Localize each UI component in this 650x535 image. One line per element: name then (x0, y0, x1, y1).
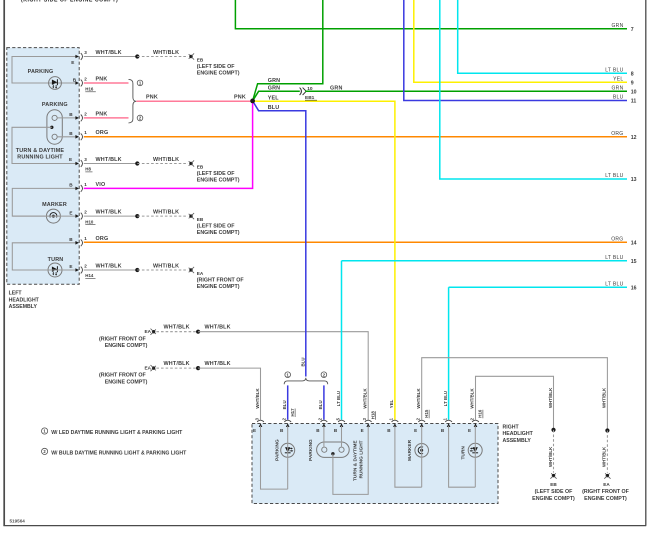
svg-text:TURN & DAYTIME: TURN & DAYTIME (353, 440, 359, 481)
svg-text:E: E (414, 428, 417, 433)
svg-text:EA: EA (144, 329, 151, 334)
svg-text:H15: H15 (424, 409, 429, 418)
svg-text:RUNNING LIGHT: RUNNING LIGHT (17, 155, 63, 161)
svg-text:EB: EB (197, 57, 204, 62)
svg-text:ENGINE COMPT): ENGINE COMPT) (532, 496, 575, 502)
svg-text:VIO: VIO (96, 182, 106, 188)
svg-text:E: E (69, 210, 72, 215)
svg-text:HEADLIGHT: HEADLIGHT (9, 297, 40, 303)
svg-text:EA: EA (603, 482, 610, 487)
svg-text:WHT/BLK: WHT/BLK (548, 446, 553, 467)
svg-text:W/ LED DAYTIME RUNNING LIGHT &: W/ LED DAYTIME RUNNING LIGHT & PARKING L… (51, 430, 183, 436)
svg-text:WHT/BLK: WHT/BLK (205, 325, 231, 331)
svg-text:GRN: GRN (330, 86, 343, 92)
svg-text:MARKER: MARKER (42, 202, 67, 208)
svg-text:H8: H8 (85, 167, 91, 172)
svg-text:H14: H14 (85, 273, 94, 278)
svg-text:WHT/BLK: WHT/BLK (205, 361, 231, 367)
svg-text:BLU: BLU (282, 400, 287, 409)
svg-text:WHT/BLK: WHT/BLK (153, 263, 179, 269)
svg-text:E: E (253, 428, 256, 433)
svg-text:YEL: YEL (613, 76, 623, 82)
svg-text:WHT/BLK: WHT/BLK (363, 388, 368, 409)
svg-text:BLU: BLU (318, 400, 323, 409)
svg-text:MARKER: MARKER (407, 439, 413, 461)
svg-text:WHT/BLK: WHT/BLK (416, 388, 421, 409)
svg-text:10: 10 (631, 90, 637, 96)
svg-text:WHT/BLK: WHT/BLK (255, 388, 260, 409)
svg-text:BLU: BLU (613, 95, 624, 101)
svg-text:(RIGHT FRONT OF: (RIGHT FRONT OF (197, 277, 245, 283)
svg-text:LT BLU: LT BLU (605, 255, 623, 261)
svg-text:LT BLU: LT BLU (605, 173, 623, 179)
svg-text:LT BLU: LT BLU (336, 391, 341, 406)
svg-text:3: 3 (84, 157, 87, 162)
svg-text:13: 13 (631, 177, 637, 183)
svg-text:WHT/BLK: WHT/BLK (96, 157, 122, 163)
svg-text:BLU: BLU (300, 357, 305, 366)
svg-text:PARKING: PARKING (308, 439, 314, 461)
svg-text:EA: EA (144, 366, 151, 371)
svg-text:(LEFT SIDE OF: (LEFT SIDE OF (197, 224, 235, 230)
svg-text:PARKING: PARKING (28, 69, 54, 75)
svg-text:TURN: TURN (461, 446, 467, 460)
svg-text:EB: EB (550, 482, 557, 487)
svg-text:GRN: GRN (268, 78, 281, 84)
svg-text:15: 15 (631, 259, 637, 265)
svg-text:E: E (69, 264, 72, 269)
svg-text:ORG: ORG (611, 131, 623, 137)
svg-text:BLU: BLU (268, 105, 280, 111)
svg-text:(LEFT SIDE OF: (LEFT SIDE OF (197, 64, 235, 70)
svg-text:PARKING: PARKING (275, 439, 281, 461)
svg-text:WHT/BLK: WHT/BLK (153, 210, 179, 216)
svg-text:ENGINE COMPT): ENGINE COMPT) (197, 70, 240, 76)
svg-text:2: 2 (84, 263, 87, 268)
svg-text:ENGINE COMPT): ENGINE COMPT) (197, 177, 240, 183)
svg-text:E: E (69, 157, 72, 162)
svg-text:WHT/BLK: WHT/BLK (153, 50, 179, 56)
svg-text:11: 11 (631, 99, 637, 105)
svg-text:LT BLU: LT BLU (605, 67, 623, 73)
svg-text:EA: EA (197, 271, 204, 276)
svg-text:14: 14 (631, 241, 637, 247)
svg-text:WHT/BLK: WHT/BLK (153, 157, 179, 163)
svg-text:9: 9 (631, 80, 634, 86)
svg-text:ORG: ORG (611, 236, 623, 242)
svg-text:RIGHT: RIGHT (503, 424, 520, 430)
svg-text:H10: H10 (85, 219, 94, 224)
svg-text:H16: H16 (85, 87, 94, 92)
svg-text:PNK: PNK (96, 76, 108, 82)
svg-text:ENGINE COMPT): ENGINE COMPT) (197, 230, 240, 236)
svg-text:LT BLU: LT BLU (605, 281, 623, 287)
svg-text:ENGINE COMPT): ENGINE COMPT) (105, 380, 148, 386)
svg-text:2: 2 (84, 210, 87, 215)
svg-text:EB: EB (197, 217, 204, 222)
svg-text:ORG: ORG (96, 130, 109, 136)
svg-text:TURN & DAYTIME: TURN & DAYTIME (16, 148, 65, 154)
svg-text:ASSEMBLY: ASSEMBLY (9, 304, 38, 310)
svg-text:GRN: GRN (268, 86, 281, 92)
svg-text:ORG: ORG (96, 236, 109, 242)
svg-text:(LEFT SIDE OF: (LEFT SIDE OF (535, 489, 573, 495)
svg-text:LT BLU: LT BLU (443, 391, 448, 406)
svg-text:GRN: GRN (611, 85, 623, 91)
svg-text:WHT/BLK: WHT/BLK (96, 210, 122, 216)
svg-text:ENGINE COMPT): ENGINE COMPT) (584, 496, 627, 502)
svg-text:519564: 519564 (10, 518, 26, 523)
svg-text:WHT/BLK: WHT/BLK (96, 50, 122, 56)
svg-text:16: 16 (631, 286, 637, 292)
svg-text:PNK: PNK (234, 94, 246, 100)
svg-text:1: 1 (84, 130, 87, 135)
svg-text:ENGINE COMPT): ENGINE COMPT) (105, 343, 148, 349)
svg-text:WHT/BLK: WHT/BLK (602, 387, 607, 408)
svg-text:(RIGHT SIDE OF ENGINE COMPT): (RIGHT SIDE OF ENGINE COMPT) (21, 0, 118, 3)
svg-text:(RIGHT FRONT OF: (RIGHT FRONT OF (99, 373, 147, 379)
svg-text:PNK: PNK (146, 94, 158, 100)
svg-text:H17: H17 (290, 408, 295, 417)
svg-text:E: E (71, 60, 74, 65)
svg-text:PNK: PNK (96, 111, 108, 117)
svg-text:2: 2 (84, 76, 87, 81)
svg-text:10: 10 (307, 86, 313, 92)
svg-text:1: 1 (84, 236, 87, 241)
svg-text:WHT/BLK: WHT/BLK (602, 446, 607, 467)
svg-text:ENGINE COMPT): ENGINE COMPT) (197, 284, 240, 290)
svg-text:EB: EB (197, 164, 204, 169)
svg-text:LEFT: LEFT (9, 291, 23, 297)
svg-text:ASSEMBLY: ASSEMBLY (503, 438, 532, 444)
svg-text:H18: H18 (370, 411, 375, 420)
svg-text:(LEFT SIDE OF: (LEFT SIDE OF (197, 171, 235, 177)
svg-text:H16: H16 (478, 409, 483, 418)
svg-text:WHT/BLK: WHT/BLK (164, 325, 190, 331)
svg-text:8: 8 (631, 71, 634, 77)
svg-text:(RIGHT FRONT OF: (RIGHT FRONT OF (582, 489, 630, 495)
svg-text:7: 7 (631, 27, 634, 33)
svg-text:WHT/BLK: WHT/BLK (96, 263, 122, 269)
svg-text:YEL: YEL (389, 399, 394, 408)
svg-text:(RIGHT FRONT OF: (RIGHT FRONT OF (99, 336, 147, 342)
svg-text:WHT/BLK: WHT/BLK (548, 387, 553, 408)
svg-text:1: 1 (84, 182, 87, 187)
svg-text:12: 12 (631, 135, 637, 141)
svg-text:W/ BULB DAYTIME RUNNING LIGHT: W/ BULB DAYTIME RUNNING LIGHT & PARKING … (51, 450, 187, 456)
svg-text:WHT/BLK: WHT/BLK (164, 361, 190, 367)
svg-text:2: 2 (84, 111, 87, 116)
svg-text:RUNNING LIGHT: RUNNING LIGHT (359, 440, 365, 478)
svg-text:GRN: GRN (611, 23, 623, 29)
svg-text:TURN: TURN (48, 257, 64, 263)
svg-text:PARKING: PARKING (42, 102, 68, 108)
svg-text:HEADLIGHT: HEADLIGHT (503, 431, 534, 437)
svg-text:3: 3 (84, 50, 87, 55)
svg-text:WHT/BLK: WHT/BLK (470, 388, 475, 409)
svg-text:E: E (361, 428, 364, 433)
svg-text:E: E (468, 428, 471, 433)
svg-text:YEL: YEL (268, 96, 280, 102)
